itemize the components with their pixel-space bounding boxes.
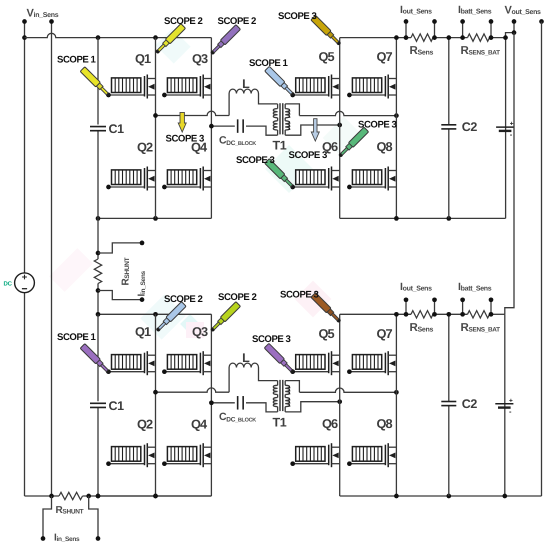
wire secondary bottom rail (340, 217, 506, 219)
svg-text:SCOPE 2: SCOPE 2 (164, 16, 203, 27)
wire top rail between sensors (433, 313, 468, 315)
wire top rail (primary +) with hop over Vin sense line (25, 33, 212, 37)
wire transformer secondary bottom to Q5/Q6 midpoint (285, 125, 340, 135)
junction dots on primary rails (96, 35, 101, 40)
arrow SCOPE 3 (yellow) at primary bridge output (178, 112, 186, 132)
node shunt bottom sense (96, 288, 101, 293)
wire transformer secondary bottom to Q5/Q6 midpoint (285, 402, 340, 412)
transistor Q6 (296, 170, 325, 185)
node Q7/Q8 midpoint (394, 113, 399, 118)
svg-text:SCOPE 2: SCOPE 2 (218, 292, 257, 303)
wire Q1/Q2 midpoint to inductor (hops Q3/Q4 leg) (156, 388, 230, 392)
junction dots on secondary rails (394, 312, 399, 317)
svg-text:SCOPE 3: SCOPE 3 (166, 134, 205, 145)
transistor Q2 (112, 170, 141, 185)
transistor Q7 (352, 78, 381, 93)
resistor R_SENS_BAT (468, 34, 490, 41)
capacitor C1 (90, 402, 106, 404)
battery column wire (504, 314, 506, 496)
junction input rail (22, 35, 27, 40)
junction C2 top (446, 312, 451, 317)
battery BAT (495, 403, 513, 405)
node Q3/Q4 midpoint (209, 124, 214, 129)
wire top rail between sensors (433, 37, 468, 39)
wire Q3/Q4 leg (210, 314, 212, 496)
wire secondary top rail (340, 37, 411, 39)
transistor Q8 (352, 170, 381, 185)
wire Iin_Sens left stub (43, 496, 52, 538)
wire secondary bottom rail (340, 495, 542, 497)
transistor Q7 (352, 355, 381, 370)
svg-text:C1: C1 (109, 399, 125, 413)
terminal Vout_Sens stub (513, 22, 515, 33)
wire Q7/Q8 leg (395, 38, 397, 219)
probe SCOPE 1 (purple) at Q1 gate (80, 344, 112, 376)
battery column wire (505, 38, 507, 219)
transistor Q5 (296, 355, 325, 370)
junction rail end (503, 35, 508, 40)
capacitor C1 column wire (97, 314, 99, 496)
wire Iin_Sens upper sense stub (98, 243, 142, 253)
node Vout junction (512, 30, 517, 35)
wire far right rail (Vout sense return) (541, 22, 543, 497)
wire transformer secondary top to Q7/Q8 midpoint (hops Q5/Q6 leg) (285, 104, 299, 116)
wire Q5/Q6 leg (339, 38, 341, 219)
wire Q3/Q4 midpoint to C_DC_BLOCK (211, 125, 234, 127)
junction dots bottom rail (49, 494, 54, 499)
transformer T1 primary winding (277, 381, 279, 386)
terminal Iout_Sens + (405, 22, 407, 38)
terminal Ibatt_Sens - (490, 22, 492, 38)
svg-text:Q7: Q7 (377, 49, 393, 64)
terminal Iin_Sens right (96, 536, 101, 541)
resistor R_sens (411, 311, 433, 318)
svg-text:L: L (242, 77, 250, 91)
transistor Q8 (352, 447, 381, 462)
probe SCOPE 1 (light blue) at Q5 gate (265, 66, 297, 98)
svg-text:Q4: Q4 (191, 416, 208, 431)
capacitor C_DC_BLOCK (237, 119, 239, 133)
probe SCOPE 3 (olive) at Q5 corner (311, 15, 343, 47)
svg-text:T1: T1 (273, 139, 287, 153)
wire top rail to output (490, 313, 505, 315)
svg-text:+: + (510, 121, 514, 128)
svg-text:SCOPE 1: SCOPE 1 (57, 332, 97, 343)
wire shunt column lower to converter 2 top rail (97, 284, 99, 315)
terminal Iout_Sens - (434, 300, 436, 315)
node shunt top sense (96, 251, 101, 256)
label R_SHUNT (rotated) (121, 257, 132, 285)
svg-text:Q7: Q7 (377, 326, 393, 341)
svg-text:SCOPE 2: SCOPE 2 (218, 16, 257, 27)
wire Q7/Q8 leg (395, 314, 397, 496)
transformer T1 primary winding (277, 104, 279, 109)
capacitor C1 column wire (97, 38, 99, 219)
svg-text:DC: DC (4, 281, 13, 288)
terminal Iout_Sens + (405, 300, 407, 315)
svg-text:C1: C1 (109, 122, 125, 136)
probe SCOPE 1 (yellow) at Q1 gate (80, 67, 112, 99)
svg-text:SCOPE 3: SCOPE 3 (289, 150, 328, 161)
terminal Iin_Sens left (41, 536, 46, 541)
svg-text:Q3: Q3 (192, 51, 208, 66)
svg-text:C2: C2 (462, 120, 478, 134)
inductor L (229, 363, 258, 367)
svg-text:SCOPE 3: SCOPE 3 (236, 155, 275, 166)
resistor R_sens (411, 34, 433, 41)
transformer T1 secondary winding (284, 381, 286, 386)
node Q3/Q4 midpoint (209, 400, 214, 405)
probe SCOPE 3 (brown) at Q5 corner (311, 293, 343, 325)
probe SCOPE 3 (purple) at Q5 gate (264, 343, 296, 375)
inductor L (229, 89, 258, 93)
transistor Q4 (167, 170, 196, 185)
svg-text:Q5: Q5 (319, 326, 335, 341)
node Q1/Q2 midpoint (153, 390, 158, 395)
wire top rail (primary +) of converter 2 (98, 313, 211, 315)
transistor Q3 (167, 355, 196, 370)
wire primary bottom rail (98, 217, 211, 219)
capacitor C_DC_BLOCK (237, 396, 239, 410)
wire Iin_Sens lower sense stub (98, 291, 142, 300)
battery BAT (496, 126, 514, 128)
probe SCOPE 2 (yellow) at Q1 leg (154, 24, 186, 56)
transistor Q2 (112, 447, 141, 462)
probe SCOPE 3 (green) at Q5/Q6 leg (337, 127, 369, 159)
wire Q5/Q6 leg (339, 314, 341, 496)
svg-text:SCOPE 3: SCOPE 3 (252, 334, 291, 345)
wire Q3/Q4 midpoint to C_DC_BLOCK (211, 402, 234, 404)
probe SCOPE 3 (green mirrored) at Q6 gate (265, 159, 297, 191)
wire shunt column upper (97, 218, 99, 259)
junction C2 top (446, 35, 451, 40)
probe SCOPE 2 (purple) at Q3 leg (209, 25, 241, 57)
probe SCOPE 2 (yellow-green) at Q3 leg (209, 302, 241, 334)
svg-text:T1: T1 (273, 415, 287, 429)
wire top rail to output (490, 37, 506, 39)
svg-text:Q3: Q3 (192, 324, 208, 339)
capacitor C2 (441, 124, 456, 126)
terminal Ibatt_Sens - (490, 300, 492, 315)
svg-text:SCOPE 3: SCOPE 3 (358, 120, 397, 131)
wire transformer secondary top to Q7/Q8 midpoint (hops Q5/Q6 leg) (285, 381, 299, 393)
terminal Iin_Sens lower (140, 297, 145, 302)
transistor Q5 (296, 78, 325, 93)
svg-text:Q8: Q8 (377, 416, 393, 431)
wire Q1/Q2 midpoint to inductor (hops Q3/Q4 leg) (156, 111, 230, 115)
svg-text:SCOPE 3: SCOPE 3 (280, 290, 319, 301)
svg-text:Q6: Q6 (322, 416, 338, 431)
wire bottom rail left segment (25, 495, 60, 497)
dc source DC (15, 273, 35, 293)
capacitor C2 column wire (448, 38, 450, 219)
terminal Iout_Sens - (434, 22, 436, 38)
wire Q3/Q4 leg (210, 38, 212, 219)
wire C_DC_BLOCK to transformer primary bottom (246, 126, 278, 135)
transformer T1 core (279, 380, 281, 411)
svg-text:+: + (509, 397, 513, 404)
svg-text:SCOPE 2: SCOPE 2 (164, 294, 203, 305)
svg-text:Q5: Q5 (319, 49, 335, 64)
wire Vout column down to converter 2 output (parallel connection) (505, 33, 514, 315)
transformer T1 secondary winding (284, 104, 286, 109)
wire secondary top rail (340, 313, 411, 315)
wire bottom rail right segment (83, 495, 212, 497)
node Q7/Q8 midpoint (394, 390, 399, 395)
wire top rail end to Vout node (506, 33, 514, 38)
wire Q1/Q2 leg (155, 314, 157, 496)
terminal Ibatt_Sens + (462, 22, 464, 38)
wire Q1/Q2 leg (155, 38, 157, 219)
transistor Q4 (167, 447, 196, 462)
wire L to transformer primary top (259, 94, 278, 104)
terminal far right stub dot (539, 19, 544, 24)
svg-text:Q8: Q8 (377, 139, 393, 154)
transistor Q1 (112, 355, 141, 370)
wire left input rail lower (DC source - to bottom rail) (24, 293, 26, 496)
junction dots on primary rails (96, 312, 101, 317)
terminal Vin_Sens + stub (24, 22, 26, 38)
svg-text:L: L (242, 351, 250, 365)
label Iin_Sens (rotated) (137, 271, 148, 297)
transformer T1 core (279, 103, 281, 134)
svg-text:SCOPE 1: SCOPE 1 (57, 55, 97, 66)
svg-text:Q1: Q1 (135, 51, 151, 66)
wire L to transformer primary top (259, 368, 278, 381)
svg-text:SCOPE 3: SCOPE 3 (278, 11, 317, 22)
svg-text:SCOPE 1: SCOPE 1 (249, 58, 289, 69)
svg-text:Q2: Q2 (137, 416, 153, 431)
junction dots on secondary rails (394, 35, 399, 40)
capacitor C1 (90, 126, 106, 128)
wire left input rail upper (to DC source +) (24, 38, 26, 273)
node Q5/Q6 midpoint (337, 123, 342, 128)
node Q1/Q2 midpoint (153, 113, 158, 118)
node Q5/Q6 midpoint (337, 399, 342, 404)
terminal Ibatt_Sens + (462, 300, 464, 315)
terminal Iin_Sens upper (140, 241, 145, 246)
terminal Vin_Sens - line (hops top rail, runs to bottom rail) (51, 22, 53, 497)
wire primary bottom rail (98, 495, 211, 497)
transistor Q6 (296, 447, 325, 462)
capacitor C2 column wire (448, 314, 450, 496)
arrow SCOPE 3 (blue) at secondary bottom wire (311, 119, 319, 141)
transistor Q3 (167, 78, 196, 93)
transistor Q1 (112, 78, 141, 93)
wire C_DC_BLOCK to transformer primary bottom (246, 403, 278, 412)
wire Iin_Sens right stub (89, 496, 98, 538)
resistor R_SHUNT (converter 2) (59, 492, 83, 499)
resistor R_SENS_BAT (468, 311, 490, 318)
svg-text:C2: C2 (462, 397, 478, 411)
resistor R_SHUNT (converter 1) (94, 259, 101, 284)
capacitor C2 (441, 401, 456, 403)
svg-text:Q1: Q1 (135, 324, 151, 339)
svg-text:Q2: Q2 (137, 140, 153, 155)
probe SCOPE 2 (light blue) at Q1 leg (155, 302, 187, 334)
